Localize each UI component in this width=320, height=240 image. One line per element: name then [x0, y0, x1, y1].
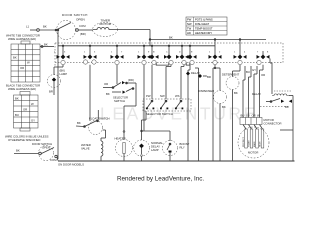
- label relay: [252, 92, 289, 109]
- wire K5 down: [151, 65, 153, 99]
- label water valve: [81, 143, 91, 151]
- svg-text:COM: COM: [50, 158, 57, 162]
- svg-text:BK: BK: [222, 105, 226, 109]
- svg-text:WIRE HARNESS (ED): WIRE HARNESS (ED): [8, 87, 36, 91]
- svg-text:WIRE HARNESS (ED): WIRE HARNESS (ED): [8, 37, 36, 41]
- cam switch K3: [111, 45, 124, 65]
- cam switch K1: [57, 45, 70, 65]
- detergent solenoid L2: [226, 65, 240, 161]
- svg-text:DOOR SWITCH: DOOR SWITCH: [62, 13, 88, 17]
- svg-text:OR: OR: [20, 66, 24, 70]
- heater HE1: [116, 140, 133, 162]
- svg-text:(BR): (BR): [80, 32, 86, 36]
- rinse aid solenoid L3: [214, 91, 227, 162]
- svg-text:BK: BK: [44, 43, 48, 47]
- wire heater feed: [123, 106, 136, 140]
- cam switch K5: [150, 45, 159, 65]
- watermark: [100, 104, 258, 124]
- selector switch S5 (dashed box): [143, 99, 191, 111]
- svg-text:MOTOR: MOTOR: [248, 151, 258, 155]
- contact marker on wire 2: [198, 74, 202, 78]
- heater relay RY1: [266, 59, 293, 162]
- contact number labels: [54, 52, 269, 54]
- cam switch K9: [209, 39, 222, 65]
- selector switch S4 (upper cluster): [103, 81, 136, 106]
- svg-text:RLY: RLY: [180, 146, 185, 150]
- svg-text:BK: BK: [234, 91, 238, 95]
- svg-text:SELECTOR SWITCH: SELECTOR SWITCH: [146, 112, 173, 116]
- timer motor M1: [93, 23, 118, 37]
- svg-text:DELAY: DELAY: [191, 71, 200, 75]
- wire to float switch: [89, 65, 91, 121]
- svg-text:HIGH: HIGH: [259, 141, 261, 147]
- svg-text:DISPENSER: DISPENSER: [198, 89, 214, 93]
- lamp DS2: [134, 140, 150, 161]
- label selector switch: [146, 94, 180, 116]
- svg-text:BR: BR: [207, 75, 211, 79]
- dashed heater line: [260, 106, 290, 108]
- svg-text:L1: L1: [26, 25, 30, 29]
- svg-text:HEATED DRY: HEATED DRY: [195, 31, 212, 35]
- svg-text:OR: OR: [252, 114, 256, 118]
- svg-text:BK: BK: [43, 25, 47, 29]
- wire selector to lamps: [141, 111, 170, 141]
- svg-text:COM: COM: [79, 24, 86, 28]
- svg-text:BK: BK: [106, 92, 110, 96]
- svg-text:START: START: [247, 140, 250, 147]
- svg-text:LAMP: LAMP: [60, 72, 68, 76]
- contact marker on wire: [186, 72, 190, 76]
- label door switch open: [26, 13, 88, 36]
- cam switch K2: [83, 45, 96, 64]
- label delay lamp: [151, 141, 163, 152]
- label dispenser: [198, 75, 226, 109]
- label black connector: [6, 84, 40, 123]
- door switch S1 (upper): [30, 21, 93, 40]
- label heater: [115, 136, 126, 140]
- label float switch: [77, 117, 110, 126]
- svg-text:GY: GY: [246, 114, 250, 118]
- svg-text:MAIN: MAIN: [253, 141, 256, 147]
- wire timer to bus: [117, 29, 150, 31]
- white T&B connector J1: [11, 41, 40, 82]
- svg-text:BU: BU: [241, 114, 245, 118]
- svg-text:DETERGENT: DETERGENT: [222, 73, 240, 77]
- svg-text:(RD): (RD): [128, 78, 134, 82]
- float switch S3: [76, 110, 106, 138]
- label timer motor: [100, 19, 112, 27]
- svg-text:WS: WS: [175, 94, 180, 98]
- cam switch K4: [138, 45, 151, 65]
- lamp DS1: [48, 65, 64, 95]
- label detergent: [222, 73, 240, 96]
- water valve L1: [101, 138, 103, 161]
- svg-text:BK: BK: [15, 97, 19, 101]
- svg-text:W: W: [257, 114, 260, 118]
- svg-text:BK: BK: [77, 121, 81, 125]
- svg-text:OR: OR: [261, 73, 265, 77]
- svg-text:BK: BK: [13, 56, 17, 60]
- svg-text:OR: OR: [23, 108, 27, 112]
- svg-text:FLOAT SWITCH: FLOAT SWITCH: [89, 117, 110, 121]
- svg-text:HD: HD: [187, 31, 191, 35]
- svg-text:DISH HEAT: DISH HEAT: [195, 22, 209, 26]
- svg-text:RELAY: RELAY: [252, 92, 261, 96]
- label white connector: [6, 34, 40, 71]
- wire U link K7-K8: [186, 63, 190, 66]
- svg-text:OPEN: OPEN: [76, 18, 85, 22]
- wire K8 down: [188, 65, 190, 161]
- svg-text:CONNECTOR: CONNECTOR: [264, 122, 282, 126]
- svg-text:HEATER: HEATER: [115, 136, 126, 140]
- svg-text:VALVE: VALVE: [81, 147, 90, 151]
- cam switch K11: [257, 46, 270, 65]
- boost relay RY2: [163, 141, 178, 162]
- svg-text:PW: PW: [146, 94, 151, 98]
- svg-text:TW: TW: [187, 27, 192, 31]
- svg-text:MOTOR: MOTOR: [100, 22, 112, 26]
- bus wire: [58, 45, 215, 47]
- wire connector stub: [40, 46, 54, 48]
- svg-text:BR: BR: [49, 90, 53, 94]
- timer dashed border: [55, 43, 283, 67]
- footer text: [117, 176, 204, 183]
- cam switch K10: [234, 39, 247, 65]
- cam switch K6: [164, 45, 173, 65]
- wire group to motor connector: [243, 65, 263, 118]
- wire K7 down: [181, 65, 184, 99]
- svg-text:GY: GY: [31, 119, 35, 123]
- dashed relay top line: [274, 90, 292, 92]
- motor M2: [238, 125, 293, 159]
- svg-text:W: W: [27, 61, 30, 65]
- wire cam4 down: [143, 65, 145, 131]
- wire left vertical: [57, 30, 59, 159]
- door switch S2 (lower): [14, 146, 58, 161]
- svg-text:LAMP: LAMP: [151, 148, 159, 152]
- label selector switch upper: [104, 78, 134, 103]
- wire cam3 down: [116, 65, 118, 82]
- svg-text:W: W: [31, 102, 34, 106]
- svg-text:NW: NW: [160, 94, 165, 98]
- svg-text:BK: BK: [16, 149, 20, 153]
- svg-text:TEMP BOOST: TEMP BOOST: [195, 27, 213, 31]
- wire extra down: [195, 68, 199, 161]
- svg-text:BK: BK: [169, 36, 173, 40]
- svg-text:ON DOOR MODELS: ON DOOR MODELS: [58, 163, 84, 167]
- wire K9 branches: [213, 65, 220, 161]
- wire U link K5-K6: [156, 63, 169, 66]
- svg-text:GY: GY: [252, 68, 256, 72]
- bottom bus wire: [58, 160, 295, 162]
- svg-text:OR: OR: [104, 82, 108, 86]
- wire K6 down: [166, 65, 171, 99]
- svg-text:SWITCH: SWITCH: [114, 99, 125, 103]
- svg-text:PW: PW: [187, 18, 192, 22]
- note wire colors: [5, 135, 49, 143]
- label door switch lower: [16, 142, 84, 167]
- svg-text:PROTECT: PROTECT: [243, 136, 245, 147]
- legend table: [186, 17, 227, 35]
- wire upper feed line: [150, 39, 266, 41]
- black T&B connector J2: [14, 92, 39, 132]
- svg-text:NW: NW: [187, 22, 192, 26]
- svg-text:POTS & PANS: POTS & PANS: [195, 18, 213, 22]
- svg-text:OPEN: OPEN: [42, 146, 50, 150]
- svg-text:Rendered by LeadVenture, Inc.: Rendered by LeadVenture, Inc.: [117, 176, 204, 183]
- motor connector J3: [240, 118, 262, 125]
- svg-text:BK: BK: [285, 105, 289, 109]
- label wire colors motor leads: [246, 68, 265, 77]
- cam switch K8: [188, 45, 197, 65]
- cam switch K7: [176, 45, 189, 65]
- label lamp: [49, 69, 67, 94]
- svg-text:BU: BU: [246, 70, 250, 74]
- svg-text:BU: BU: [15, 113, 19, 117]
- label boost relay: [180, 142, 190, 150]
